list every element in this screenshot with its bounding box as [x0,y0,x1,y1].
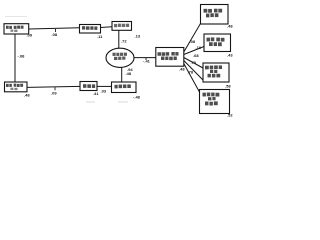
svg-text:.13: .13 [135,34,141,39]
svg-text:.52: .52 [227,113,233,118]
svg-text:.09: .09 [27,33,33,38]
svg-text:.78: .78 [188,70,194,75]
svg-text:-.08: -.08 [18,54,26,59]
svg-text:.48: .48 [126,71,132,76]
svg-text:.43: .43 [227,53,233,58]
svg-text:-.41: -.41 [143,59,151,64]
svg-text:.68: .68 [193,53,199,58]
svg-text:.72: .72 [121,39,127,44]
svg-text:.03: .03 [101,89,107,94]
svg-text:-.48: -.48 [133,95,141,100]
svg-text:.48: .48 [24,93,30,98]
svg-text:.48: .48 [179,67,185,72]
svg-text:.48: .48 [227,24,233,29]
svg-text:.58: .58 [225,84,231,89]
svg-text:.10: .10 [196,45,202,50]
svg-text:.70: .70 [191,60,197,65]
svg-text:.09: .09 [51,90,57,95]
svg-text:.11: .11 [97,34,103,39]
svg-text:.41: .41 [93,91,99,96]
svg-text:.08: .08 [190,39,196,44]
svg-text:.08: .08 [52,32,58,37]
